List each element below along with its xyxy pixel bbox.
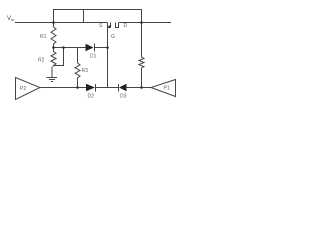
diode D3	[119, 84, 127, 92]
op-amp P2	[16, 78, 41, 100]
svg-text:R3: R3	[82, 68, 89, 74]
diode D1	[86, 44, 95, 52]
transistor Q1	[108, 23, 120, 29]
resistor R2	[51, 48, 56, 67]
wire gate line down to bottom rail	[107, 28, 109, 88]
wire top bypass rail	[54, 10, 142, 23]
wire rail middle drop	[83, 10, 85, 23]
svg-text:D3: D3	[120, 94, 127, 100]
svg-text:R1: R1	[40, 34, 47, 40]
wire potentiometer wiper loop	[54, 48, 64, 66]
resistor R4	[139, 23, 144, 88]
node Vin	[7, 16, 14, 22]
junction dots	[52, 21, 143, 89]
wire input Vin to transistor source	[15, 22, 108, 24]
svg-text:D1: D1	[90, 54, 97, 60]
svg-text:P1: P1	[164, 86, 170, 92]
svg-text:R2: R2	[38, 58, 45, 64]
resistor R3	[75, 48, 80, 88]
svg-text:Vin: Vin	[7, 16, 14, 22]
svg-text:P2: P2	[20, 86, 26, 92]
svg-text:D: D	[124, 23, 128, 29]
resistor R1	[51, 23, 56, 48]
ground	[47, 67, 58, 82]
wire divider node to diode D1	[54, 47, 108, 49]
svg-text:D2: D2	[88, 94, 95, 100]
op-amp P1	[151, 80, 176, 97]
diode D2	[86, 84, 96, 92]
wire transistor drain to output	[119, 22, 172, 24]
svg-text:G: G	[111, 34, 115, 40]
wire bottom rail	[40, 87, 151, 89]
